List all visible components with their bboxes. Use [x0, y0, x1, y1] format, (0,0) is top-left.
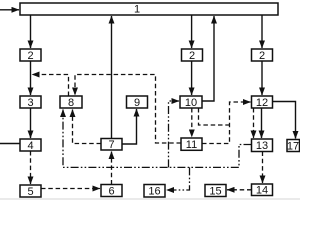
wire block2R to block12 — [261, 61, 263, 95]
block 10 — [180, 96, 202, 108]
wire block7 to block9 — [122, 109, 137, 144]
block 7 — [101, 139, 122, 151]
svg-text:13: 13 — [256, 140, 268, 152]
svg-text:4: 4 — [27, 140, 33, 152]
dashed wire block11 to block8 top — [75, 75, 181, 144]
dashdot wire branch to block16 — [167, 167, 190, 190]
svg-text:5: 5 — [27, 186, 33, 198]
block 12 — [252, 96, 273, 108]
block 17 — [287, 140, 300, 152]
dashed wire block6 to block7 — [111, 152, 113, 185]
svg-text:15: 15 — [209, 185, 221, 197]
wire block1 to block2 middle — [191, 15, 193, 48]
svg-text:1: 1 — [134, 4, 140, 16]
dashed wire block10 to block11 — [191, 108, 193, 137]
block 8 — [60, 96, 82, 108]
dashed wire block7 to block8 bottom — [73, 110, 102, 144]
wire block3 to block4 — [30, 108, 32, 138]
svg-text:10: 10 — [185, 97, 197, 109]
dashed wire block10 branch join — [199, 108, 230, 125]
block 11 — [181, 138, 202, 150]
wire input to block 4 — [0, 143, 20, 145]
dashed wire block8 feedback to line 2-3 — [32, 75, 69, 97]
block 4 — [20, 139, 41, 151]
block 6 — [101, 185, 122, 197]
svg-text:2: 2 — [259, 50, 265, 62]
svg-text:6: 6 — [108, 185, 114, 197]
wire block1 to block2 right — [261, 15, 263, 48]
dashed wire block12 to block13 — [253, 108, 255, 138]
block 15 — [205, 185, 226, 197]
wire block7 up to block1 — [111, 16, 113, 139]
block 3 — [20, 96, 41, 108]
wire block2M to block10 — [191, 61, 193, 95]
block 5 — [20, 185, 41, 197]
dashed wire block5 to block6 — [41, 188, 100, 190]
dashdot wire branch to block10 — [169, 101, 180, 167]
block 2 left — [20, 49, 41, 61]
svg-text:12: 12 — [256, 97, 268, 109]
wire input to block 1 — [0, 9, 19, 11]
wire block1 to block2 left — [30, 15, 32, 48]
dashed wire block11 to block12 — [202, 102, 251, 144]
svg-text:16: 16 — [148, 186, 160, 198]
svg-text:9: 9 — [134, 97, 140, 109]
wire block10 up to block1 — [202, 16, 214, 101]
svg-text:2: 2 — [27, 50, 33, 62]
wire block12 to block17 — [273, 102, 296, 139]
block 2 middle — [182, 49, 203, 61]
svg-text:8: 8 — [68, 97, 74, 109]
svg-text:3: 3 — [27, 97, 33, 109]
dashdot wire block13 to block8 bottom — [63, 110, 252, 168]
dashed wire block13 to block14 — [262, 152, 264, 184]
block 1 — [20, 3, 278, 15]
svg-text:14: 14 — [256, 184, 268, 196]
dashed wire block14 to block15 — [227, 189, 252, 191]
block 2 right — [252, 49, 273, 61]
svg-text:17: 17 — [287, 140, 299, 152]
svg-text:11: 11 — [186, 139, 197, 151]
block 9 — [127, 96, 148, 108]
wire block12 to block13 solid — [261, 108, 263, 138]
dashed wire block4 to block5 — [30, 151, 32, 184]
block 13 — [252, 139, 273, 152]
block 14 — [252, 184, 273, 196]
block 16 — [144, 185, 165, 198]
svg-text:7: 7 — [108, 139, 114, 151]
svg-text:2: 2 — [189, 50, 195, 62]
scan artifact bottom — [0, 198, 300, 199]
wire block2L to block3 — [30, 61, 32, 95]
